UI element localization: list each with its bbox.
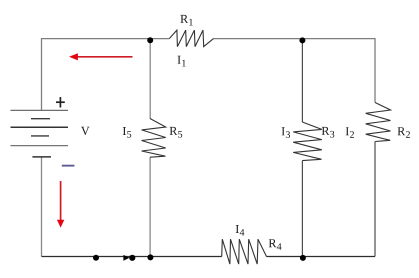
resistor R2 label [398, 127, 410, 138]
resistor R4 label [269, 239, 282, 250]
current label I3 [282, 127, 290, 138]
current label I5 [123, 127, 131, 138]
resistor R4 [222, 239, 267, 264]
node dot bottom d (R3 branch junction) [300, 255, 306, 261]
resistor R5 [142, 119, 166, 158]
node dot bottom b [129, 255, 135, 261]
resistor R1 [169, 30, 213, 46]
wire node2 branch upper [301, 39, 303, 122]
node dot bottom a [93, 255, 99, 261]
resistor R2 [366, 103, 391, 142]
node dot top 1 [147, 37, 153, 43]
wire bottom horizontal left segment [42, 256, 222, 258]
resistor R5 label [170, 127, 183, 138]
wire top horizontal right segment + R2 branch upper [214, 39, 376, 103]
battery V negative terminal plate [32, 156, 51, 158]
battery V plate long bottom [11, 145, 69, 147]
wire left vertical + top horizontal left segment [42, 39, 170, 111]
battery V plate short [31, 118, 50, 120]
current label I4 [236, 225, 245, 236]
wire R2 branch lower [374, 142, 376, 257]
wire left vertical below battery [41, 157, 43, 257]
resistor R1 label [180, 15, 192, 26]
resistor R3 [293, 122, 322, 161]
resistor R3 label [322, 127, 335, 138]
wire node1 branch lower [149, 157, 151, 256]
red current arrow top (pointing left) [69, 53, 133, 60]
battery plus sign [56, 97, 65, 108]
node dot bottom c (R5 branch junction) [147, 254, 153, 260]
node dot top 2 [299, 37, 305, 43]
wire node1 branch upper [149, 39, 151, 119]
wire bottom horizontal right segment [267, 256, 376, 258]
current label I2 [346, 127, 354, 138]
battery label V [81, 127, 90, 135]
current arrowhead on bottom wire [123, 255, 129, 261]
battery minus sign [62, 165, 75, 167]
battery V plate short [31, 135, 49, 137]
current label I1 [178, 56, 186, 67]
battery V plate long middle [11, 126, 69, 128]
wire node2 branch lower [301, 161, 303, 257]
battery V plate long top positive [11, 109, 69, 111]
red current arrow left (pointing down) [57, 181, 64, 228]
